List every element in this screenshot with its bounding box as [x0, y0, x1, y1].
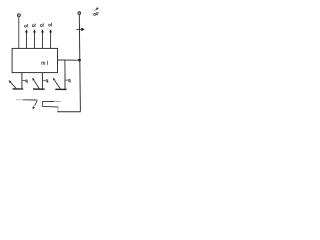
corner label ho: [94, 12, 99, 15]
wire U1 right pin to rail: [58, 59, 80, 61]
wire C1 to bottom: [42, 106, 58, 111]
pin arrow 1: [25, 29, 28, 48]
junction dot: [78, 59, 81, 62]
wire W1: [16, 99, 38, 101]
pin label a4: [49, 23, 52, 26]
terminal J1: [17, 14, 20, 17]
pin arrow 2: [33, 29, 36, 48]
Q1 emitter arrow: [9, 80, 17, 88]
wire J1 to U1 pin: [18, 17, 20, 49]
wire rail branch to Q3: [64, 60, 66, 73]
bottom wire to rail: [57, 111, 80, 113]
capacitor plate C1: [42, 101, 60, 107]
transistor Q2: [33, 73, 46, 89]
supply rail wire: [79, 15, 80, 112]
Q3 emitter arrow: [53, 78, 60, 89]
Q2 label q: [46, 80, 48, 84]
pin arrow 4: [49, 29, 52, 48]
Q1 label q: [26, 80, 28, 84]
current arrow on rail: [76, 28, 85, 32]
transistor Q3: [55, 73, 68, 90]
Q3 label q: [68, 79, 70, 83]
corner label +V: [95, 7, 99, 10]
pin label a2: [32, 24, 35, 27]
pin label a1: [25, 24, 28, 27]
pin arrow 3: [41, 29, 44, 48]
terminal J2: [78, 12, 81, 15]
IC U1: [12, 48, 57, 72]
Q2 emitter arrow: [32, 78, 39, 89]
pin label a3: [40, 23, 43, 26]
transistor Q1: [13, 73, 26, 89]
IC label m1: [42, 61, 48, 65]
switch arrow S1: [33, 101, 38, 110]
